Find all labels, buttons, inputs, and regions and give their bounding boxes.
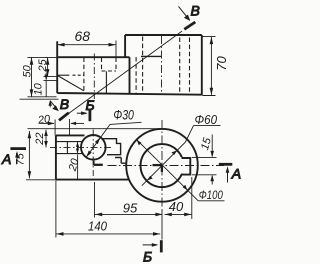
dim 70: dimension line with arrows	[210, 37, 212, 95]
top view: hidden dashed vertical x=83.9	[83, 58, 85, 94]
section step stub vertical below D30	[93, 161, 95, 166]
dim 20 upper-left: extension vertical x=69.5	[69, 119, 71, 136]
dim 22: dimension line with arrows	[45, 130, 47, 148]
paper background	[0, 0, 243, 264]
svg-text:40: 40	[169, 199, 184, 214]
svg-text:Φ100: Φ100	[199, 188, 223, 202]
dim 68: dimension line with arrows	[57, 44, 115, 46]
svg-text:140: 140	[88, 219, 108, 234]
svg-text:22: 22	[34, 133, 46, 146]
svg-text:20: 20	[36, 113, 52, 127]
dim 20 upper-left: horizontal arrow to edge line	[40, 122, 54, 124]
side view: hidden dashed vertical x=179.7	[179, 38, 181, 94]
section line B-B diagonal	[66, 31, 182, 115]
dim 15: arrows outside	[211, 135, 213, 157]
top view: center line x=94.3 dash-dot	[93, 54, 95, 100]
front view: thin vertical dim continuation x=77.6	[77, 155, 79, 180]
section B thick tick lower	[59, 113, 69, 121]
front view: circle D30	[81, 135, 106, 160]
front view: double arrow small hole	[77, 142, 79, 153]
section B thick tick upper	[184, 22, 195, 29]
section marker Б bottom: thick tick	[160, 240, 163, 252]
keyway slot of inner circle	[181, 158, 190, 175]
big circle center horizontal dash-dot	[108, 165, 225, 167]
top view: inner solid vertical x=106.4	[105, 71, 107, 94]
section marker A right: thick tick	[219, 163, 233, 166]
dim 20 upper-left: extension line y=99.2	[20, 98, 59, 100]
top view: chamfer diagonal solid	[58, 76, 84, 91]
dim 22: extension long line y=128.7	[28, 128, 161, 130]
top view: hidden dashed vertical x=116	[115, 58, 117, 72]
big circle inner D60	[141, 144, 184, 187]
svg-text:70: 70	[214, 56, 229, 71]
svg-text:95: 95	[123, 201, 138, 216]
dim 70: extension lines	[202, 37, 215, 96]
front view: D30 center vertical dash-dot	[92, 130, 94, 177]
side view: center line x=161.5 dash-dot	[161, 36, 163, 95]
section marker A right: arrow	[227, 168, 229, 183]
svg-text:68: 68	[75, 28, 91, 44]
side (tall) view outline	[125, 35, 202, 95]
dim 140: dimension line with arrows	[56, 233, 160, 235]
top view: top edge segment y=56.4	[141, 55, 161, 57]
svg-text:50: 50	[22, 64, 34, 77]
dim 25: dimension line with arrows	[47, 58, 49, 77]
svg-text:Б: Б	[86, 97, 95, 113]
dim 50: extension lines	[28, 57, 57, 96]
section marker Б top: thick tick	[89, 110, 92, 122]
dim 75: bottom extension y=179.6	[26, 179, 55, 181]
section B arrow upper	[179, 6, 190, 19]
front view: D30 center horizontal dash-dot	[50, 146, 113, 148]
dim 10: dimension line, arrows outside	[45, 81, 47, 97]
front view: small hole lower line	[56, 153, 82, 155]
section step stub at big circle center: vertical	[161, 165, 163, 172]
dim 25/10: middle extension lines	[44, 76, 58, 80]
side view: hidden dashed vertical x=142.7	[142, 37, 144, 94]
dim 20 upper-left: extension vertical x=55.1	[54, 120, 56, 136]
top view: hidden dashed horizontal y=75.2	[73, 74, 85, 76]
svg-text:В: В	[60, 96, 69, 112]
dim D100: diagonal line NW-SE	[137, 140, 199, 201]
svg-text:25: 25	[37, 58, 49, 72]
front view: counterbore vertical x=67.4	[66, 142, 68, 154]
svg-text:В: В	[191, 3, 200, 19]
section marker A left: arrow	[16, 153, 18, 165]
svg-text:75: 75	[15, 152, 27, 165]
big circle center vertical dash-dot	[161, 120, 163, 211]
section marker Б top: arrow	[77, 112, 87, 114]
section B arrow lower	[50, 101, 58, 110]
dim 40: arrows	[165, 213, 172, 217]
dim D100: shelf	[198, 200, 224, 202]
dim 75: dimension line with arrows	[28, 131, 30, 178]
dim D60: shelf	[194, 124, 221, 126]
dim D60: diagonal line NE-SW	[142, 125, 194, 185]
section step stub at big circle center: horizontal	[153, 164, 163, 166]
front view: tab right of D30	[103, 139, 121, 155]
svg-text:А: А	[231, 166, 241, 182]
svg-text:Φ30: Φ30	[113, 108, 134, 123]
dim 95: dimension line with arrows	[95, 213, 162, 215]
dim 68: extension lines	[57, 41, 116, 57]
top view: hidden dashed horizontal y=71	[102, 70, 117, 72]
dim D30: leader line through circle with shelf	[86, 122, 141, 157]
top view: left block outline	[57, 42, 202, 95]
svg-text:10: 10	[33, 82, 45, 95]
dim 50: dimension line with arrows	[31, 58, 33, 97]
top view: step edge solid	[57, 74, 69, 76]
top view: hidden dashed vertical x=101.5	[101, 58, 103, 72]
section marker Б bottom: arrow	[143, 244, 157, 246]
side view: hidden dashed vertical x=136.1	[135, 57, 137, 95]
dim 20 upper-left: left arrow	[71, 122, 84, 124]
svg-text:А: А	[1, 151, 11, 167]
svg-text:Φ60: Φ60	[195, 112, 218, 127]
section marker A left: thick tick	[10, 147, 26, 150]
dim 15: extension lines	[192, 157, 217, 174]
dim 95/40: extension lines	[56, 177, 192, 240]
side view: hidden dashed vertical x=189.5	[189, 38, 191, 94]
front view: small step to big circle	[115, 158, 127, 164]
white gap for keyway opening of inner circle	[180, 157, 188, 174]
front view: outline left block	[56, 135, 129, 179]
section step stub horizontal y=164.8	[94, 164, 103, 166]
front view: small hole upper line	[56, 141, 82, 143]
svg-text:Б: Б	[143, 249, 152, 264]
big circle outer D100	[126, 129, 198, 202]
